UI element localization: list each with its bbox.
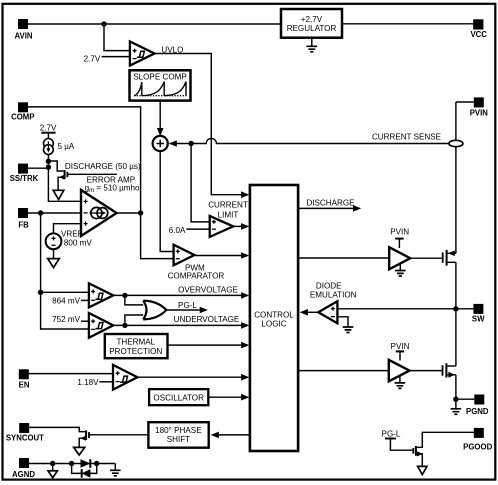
wire PGND node to pin [456, 398, 474, 400]
phase shift block [148, 422, 208, 448]
node error amp output [138, 210, 143, 215]
wire control to low-side driver [298, 370, 389, 372]
transistor low-side FET [442, 365, 444, 375]
supply bar PVIN low [396, 350, 404, 352]
wire PVIN rail upper [455, 102, 457, 140]
wire SW node to pin [456, 308, 474, 310]
wire PVIN pin to rail [456, 101, 474, 103]
comparator diode emulation [318, 301, 337, 323]
wire SYNCOUT to FET [29, 427, 85, 431]
wire low driver to gate [410, 370, 442, 372]
diode clamp lower [82, 469, 91, 478]
wire 1.18V to comparator - [99, 381, 113, 383]
svg-text:DIODE: DIODE [316, 281, 342, 290]
svg-text:SW: SW [472, 315, 485, 324]
wire summer to PWM + [160, 151, 173, 251]
wire UVLO output to control logic [155, 54, 242, 195]
slope comp waveform [134, 95, 186, 97]
svg-text:THERMAL: THERMAL [116, 337, 155, 346]
wire diode emulation output to control logic [308, 311, 318, 313]
wire 2.7V to UVLO - [102, 56, 130, 58]
svg-text:SHIFT: SHIFT [167, 435, 190, 444]
svg-text:CURRENT: CURRENT [208, 201, 248, 210]
svg-text:5 µA: 5 µA [58, 142, 75, 151]
svg-text:DISCHARGE: DISCHARGE [306, 198, 355, 207]
wire AVIN to regulator [28, 23, 281, 25]
node FB rail junction [38, 290, 43, 295]
svg-text:PG-L: PG-L [178, 301, 197, 310]
pin PGOOD [474, 428, 484, 438]
node AGND 2 [69, 461, 74, 466]
regulator U2 +2.7V [281, 9, 342, 38]
wire undervoltage to OR gate [125, 315, 146, 325]
node SS pin junction [46, 165, 51, 170]
ground PGND [455, 399, 457, 408]
wire VREF to error amp + [54, 224, 82, 234]
wire VREF to ground [53, 249, 55, 258]
transistor discharge FET [48, 161, 63, 171]
comparator undervoltage [89, 313, 113, 338]
wire PG-L [166, 309, 199, 311]
pin FB [18, 208, 28, 218]
wire control to high-side driver [298, 257, 389, 259]
wire diode clamp loop [72, 464, 97, 474]
svg-text:SS/TRK: SS/TRK [10, 174, 39, 183]
wire thermal to control logic [168, 344, 242, 346]
comparator PWM [174, 245, 195, 266]
wire SW to diode emulation + [337, 308, 456, 310]
wire supply to current source [47, 133, 49, 139]
wire SW to low FET drain [455, 309, 457, 366]
svg-text:1.18V: 1.18V [77, 378, 99, 387]
svg-text:PG-L: PG-L [382, 429, 401, 438]
wire COMP to error amp output [28, 107, 141, 213]
svg-text:PGOOD: PGOOD [463, 442, 492, 451]
comparator UVLO [130, 42, 155, 66]
svg-text:COMPARATOR: COMPARATOR [168, 271, 225, 280]
gate OR PG-L [143, 301, 166, 320]
op-amp error amplifier [81, 190, 117, 236]
pin SYNCOUT [19, 423, 29, 433]
svg-text:UNDERVOLTAGE: UNDERVOLTAGE [174, 315, 240, 324]
wire 864mV to overvoltage - [81, 299, 89, 301]
wire SS/TRK to node [28, 167, 48, 169]
pin VCC [473, 19, 483, 29]
wire overvoltage output to control logic [113, 294, 241, 296]
wire high driver to gate [410, 257, 442, 259]
ground discharge FET [53, 190, 64, 199]
node FB junction [38, 210, 43, 215]
wire PWM output to control logic [194, 255, 241, 257]
transistor SYNCOUT FET [85, 430, 87, 440]
pin AVIN [18, 19, 28, 29]
current source 5uA [44, 139, 54, 149]
svg-text:CONTROL: CONTROL [254, 311, 294, 320]
wire FB to error amp - [28, 212, 81, 214]
node AGND 1 [50, 461, 55, 466]
wire EN to comparator + [29, 373, 113, 375]
slope comp block [130, 70, 191, 100]
wire oscillator to control logic [208, 396, 241, 398]
wire overvoltage to OR gate [125, 295, 146, 305]
svg-text:VREF: VREF [61, 229, 83, 238]
wire DISCHARGE output [298, 207, 353, 209]
svg-text:752 mV: 752 mV [52, 315, 80, 324]
ground SYNCOUT FET [74, 447, 85, 455]
wire rail ellipse to high FET drain [455, 147, 457, 253]
current sense probe [449, 140, 463, 146]
source VREF 800mV [46, 233, 62, 249]
svg-text:PGND: PGND [466, 407, 489, 416]
wire control logic to phase shift [219, 434, 250, 436]
comparator overvoltage [89, 283, 113, 307]
wire FB sense rail [41, 213, 89, 329]
ground low-side driver [399, 376, 401, 383]
svg-text:PVIN: PVIN [470, 108, 489, 117]
wire discharge gate stub [67, 173, 117, 175]
node current sense junction [188, 141, 193, 146]
pin EN [19, 369, 29, 379]
wire FB to overvoltage + [41, 291, 89, 293]
svg-text:PVIN: PVIN [390, 227, 409, 236]
comparator EN [113, 365, 137, 390]
wire 752mV to undervoltage + [81, 320, 89, 322]
wire slope comp to summer [159, 101, 161, 133]
wire high FET source to SW [455, 262, 457, 309]
wire AGND rail [29, 463, 115, 465]
supply bar PG-L [385, 438, 396, 440]
node undervoltage junction [122, 323, 127, 328]
node overvoltage junction [122, 293, 127, 298]
svg-text:800 mV: 800 mV [64, 239, 92, 248]
wire 6.0A to current limit - [186, 228, 209, 230]
supply bar PVIN high [395, 238, 403, 240]
ground PGOOD FET [418, 466, 427, 474]
svg-text:AVIN: AVIN [14, 32, 32, 41]
comparator current limit [210, 216, 234, 237]
svg-text:EN: EN [19, 380, 30, 389]
svg-text:PVIN: PVIN [391, 342, 410, 351]
transistor PGOOD FET [412, 448, 414, 454]
pin SS/TRK [18, 164, 28, 174]
pin AGND [19, 458, 29, 468]
svg-text:SYNCOUT: SYNCOUT [6, 433, 44, 442]
node SW [453, 306, 458, 311]
wire AVIN to UVLO + [104, 24, 130, 51]
node SS drain junction [46, 159, 51, 164]
summing node [153, 136, 168, 151]
control logic block [250, 185, 298, 451]
wire current sense [172, 138, 450, 143]
wire SYNCOUT gate to phase shift [89, 434, 148, 436]
svg-text:6.0A: 6.0A [169, 226, 186, 235]
node AGND 3 [94, 461, 99, 466]
wire regulator to VCC [342, 23, 473, 25]
pin COMP [18, 102, 28, 112]
svg-text:REGULATOR: REGULATOR [287, 24, 337, 33]
pin PVIN right [474, 97, 484, 107]
buffer high-side driver [389, 247, 410, 269]
wire diode emulation - to ground [337, 317, 348, 327]
svg-text:2.7V: 2.7V [84, 54, 101, 63]
wire undervoltage output to control logic [113, 324, 241, 326]
wire COMP node to PWM - [141, 213, 174, 259]
wire low FET source to PGND [455, 375, 457, 399]
svg-text:VCC: VCC [470, 30, 487, 39]
wire EN output to control logic [137, 376, 241, 378]
svg-text:2.7V: 2.7V [40, 123, 57, 132]
wire current limit output to control logic [233, 225, 241, 227]
thermal protection block [105, 334, 168, 358]
ground high-side driver [399, 264, 401, 271]
wire current sense to current limit + [191, 144, 210, 222]
svg-text:CURRENT SENSE: CURRENT SENSE [372, 133, 442, 142]
wire current source to SS node [47, 155, 49, 169]
svg-text:180° PHASE: 180° PHASE [155, 426, 202, 435]
supply bar 2.7V [41, 132, 55, 134]
diode clamp upper [81, 459, 91, 468]
node AVIN junction [101, 21, 106, 26]
svg-text:AGND: AGND [12, 470, 35, 479]
svg-text:OVERVOLTAGE: OVERVOLTAGE [178, 285, 238, 294]
svg-text:EMULATION: EMULATION [310, 290, 357, 299]
wire SS node to error amp + [48, 167, 81, 201]
ground AGND signal [52, 464, 54, 471]
ground regulator [311, 38, 313, 46]
svg-text:LIMIT: LIMIT [218, 211, 239, 220]
svg-text:COMP: COMP [11, 113, 34, 122]
buffer low-side driver [389, 360, 410, 381]
ground AGND earth [114, 464, 116, 471]
svg-text:LOGIC: LOGIC [261, 319, 286, 328]
ground VREF [48, 259, 60, 268]
wire PG-L to gate [390, 439, 412, 451]
oscillator block [149, 389, 208, 405]
svg-text:SLOPE COMP: SLOPE COMP [133, 73, 187, 82]
svg-text:OSCILLATOR: OSCILLATOR [153, 393, 204, 402]
pin PGND [474, 395, 484, 405]
pin SW [473, 304, 483, 314]
svg-text:DISCHARGE (50 µs): DISCHARGE (50 µs) [65, 162, 141, 171]
ground diode emulation [343, 327, 354, 333]
node PGND [453, 397, 458, 402]
svg-text:FB: FB [18, 220, 29, 229]
wire error amp output [117, 212, 141, 214]
transistor high-side FET [442, 252, 444, 262]
svg-text:+2.7V: +2.7V [301, 15, 323, 24]
svg-text:864 mV: 864 mV [52, 296, 80, 305]
svg-text:PROTECTION: PROTECTION [109, 347, 162, 356]
